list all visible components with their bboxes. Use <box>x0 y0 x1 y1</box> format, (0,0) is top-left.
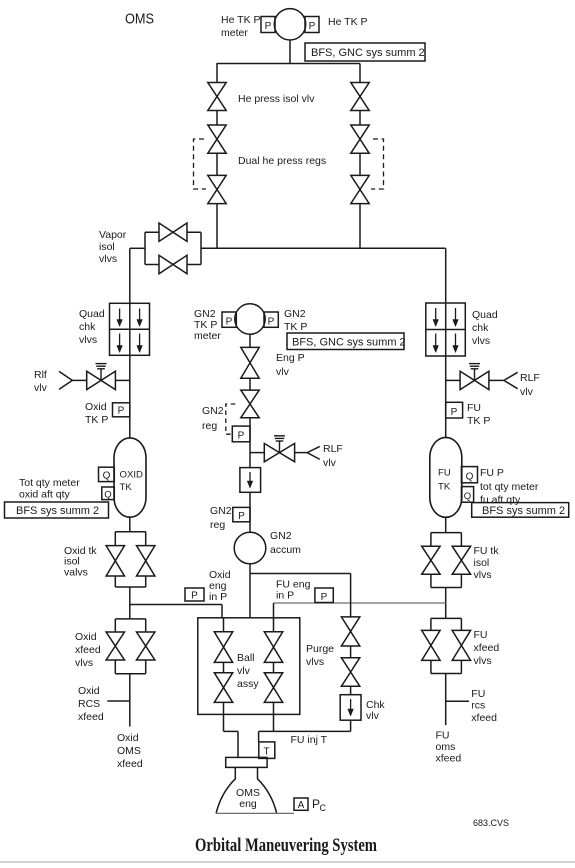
sensor box P fu eng in <box>315 588 333 603</box>
wire oxid oms xfeed line <box>129 674 131 727</box>
wire GN2 meter stem <box>249 334 251 347</box>
wire right rlf stub2 <box>489 379 504 381</box>
svg-text:chk: chk <box>472 322 489 334</box>
valve fu tk isol right <box>452 546 470 574</box>
check valve box GN2 <box>240 468 261 493</box>
valve fu tk isol left <box>422 546 440 574</box>
svg-text:xfeed: xfeed <box>78 711 104 723</box>
valve Rlf left bowtie <box>87 371 116 389</box>
vent symbol right rlf <box>469 363 480 365</box>
wire GN2 rlf stub <box>295 452 308 454</box>
valve dual He press reg left lower <box>208 175 226 203</box>
wire right He branch upper <box>359 64 361 83</box>
svg-text:vlvs: vlvs <box>474 655 492 667</box>
valve oxid tk isol right <box>137 546 155 576</box>
engine OMS eng bell outline <box>216 767 277 813</box>
svg-text:RLF: RLF <box>520 372 540 384</box>
svg-text:oxid aft qty: oxid aft qty <box>19 489 71 501</box>
wire fu isol right leg lower <box>460 574 462 587</box>
wire oxid xfeed right leg upper <box>145 619 147 632</box>
sensor box P right of He meter <box>305 17 319 33</box>
dashed bracket dual regs left <box>194 139 207 189</box>
wire ball left column seg3 <box>223 702 225 714</box>
valve assembly vapor isol vlvs loop <box>145 232 201 264</box>
svg-text:P: P <box>265 21 272 32</box>
wire fu rcs xfeed tick <box>446 700 469 702</box>
wire left main quad-to-tank <box>129 355 131 438</box>
svg-text:C: C <box>320 803 327 813</box>
valve Eng P vlv <box>241 347 259 378</box>
wire right branch seg1 <box>359 111 361 126</box>
arrow quad right bottom-right <box>455 334 457 347</box>
wire chk to fu inj <box>350 720 352 731</box>
tank OXID TK <box>114 438 146 517</box>
valve RLF right bowtie <box>460 371 489 389</box>
svg-text:Dual he press regs: Dual he press regs <box>238 155 326 167</box>
svg-text:TK P: TK P <box>85 414 108 426</box>
arrow quad left bottom-right <box>139 334 141 347</box>
valve He press isol vlv right <box>351 83 369 111</box>
svg-text:chk: chk <box>79 321 96 333</box>
svg-text:vlvs: vlvs <box>306 656 324 668</box>
svg-text:xfeed: xfeed <box>471 712 497 724</box>
svg-text:P: P <box>451 407 458 418</box>
wire purge seg1 <box>350 646 352 658</box>
svg-text:TK: TK <box>438 482 451 493</box>
svg-text:accum: accum <box>270 544 301 556</box>
wire fu feed below box v1 <box>273 714 275 731</box>
svg-text:vlv: vlv <box>276 366 290 378</box>
sensor box P GN2 reg lower <box>233 507 250 521</box>
wire fu isol top bar <box>431 532 462 534</box>
arrow quad right bottom-left <box>435 334 437 347</box>
wire fu xfeed right leg upper <box>460 618 462 630</box>
svg-text:GN2: GN2 <box>284 308 306 320</box>
arrow quad right top-right <box>455 308 457 320</box>
wire oxid isol right leg upper <box>145 532 147 546</box>
svg-text:Eng P: Eng P <box>276 352 305 364</box>
svg-text:oms: oms <box>436 741 456 753</box>
wire oxid xfeed left leg lower <box>114 660 116 674</box>
wire right branch seg2 <box>359 153 361 175</box>
svg-text:FU P: FU P <box>480 467 504 479</box>
svg-text:Oxid: Oxid <box>75 631 97 643</box>
junction GN2 rlf tee <box>250 452 264 454</box>
svg-text:He TK P: He TK P <box>328 16 368 28</box>
svg-text:xfeed: xfeed <box>436 753 462 765</box>
wire fu oms xfeed line <box>445 674 447 726</box>
svg-text:Quad: Quad <box>472 309 498 321</box>
svg-text:T: T <box>263 747 269 758</box>
wire fu feed drop to T box <box>258 731 260 742</box>
svg-text:Ball: Ball <box>237 652 255 664</box>
svg-text:assy: assy <box>237 678 259 690</box>
sensor box Q lower left tank <box>102 487 115 500</box>
wire fu isol left leg upper <box>430 533 432 547</box>
svg-text:Purge: Purge <box>306 643 334 655</box>
svg-text:reg: reg <box>202 420 217 432</box>
valve vapor isol bottom <box>159 255 187 273</box>
svg-text:in P: in P <box>276 590 294 602</box>
svg-text:P: P <box>309 21 316 32</box>
dashed bracket GN2 reg <box>226 404 236 434</box>
wire fu isol right leg upper <box>460 533 462 547</box>
wire left branch seg1 <box>216 111 218 126</box>
wire ball right column seg1 <box>273 618 275 632</box>
valve ball left upper <box>214 632 232 663</box>
wire fu isol bottom bar <box>431 587 462 589</box>
svg-text:xfeed: xfeed <box>474 642 500 654</box>
valve fu xfeed left <box>422 630 440 660</box>
engine OMS eng flange <box>226 757 267 767</box>
wire He meter stem <box>289 40 291 64</box>
valve oxid xfeed left <box>106 632 124 660</box>
svg-text:vlv: vlv <box>366 710 380 722</box>
wire left main drop from manifold <box>129 248 131 303</box>
sensor box P left of GN2 meter <box>222 312 236 327</box>
wire oxid isol left leg upper <box>114 532 116 546</box>
svg-text:xfeed: xfeed <box>117 758 143 770</box>
svg-text:BFS, GNC sys summ 2: BFS, GNC sys summ 2 <box>311 47 425 59</box>
wire oxid xfeed top bar <box>115 618 145 620</box>
svg-text:FU: FU <box>438 468 451 479</box>
svg-text:GN2: GN2 <box>210 505 232 517</box>
valve ball right upper <box>264 632 282 663</box>
svg-text:tot qty meter: tot qty meter <box>480 481 539 493</box>
wire oxid eng in line <box>130 604 222 606</box>
svg-text:BFS, GNC sys summ 2: BFS, GNC sys summ 2 <box>292 337 406 349</box>
svg-text:isol: isol <box>474 557 490 569</box>
svg-text:Q: Q <box>103 471 111 482</box>
tank FU TK <box>430 437 462 517</box>
wire GN2 seg3 <box>249 492 251 532</box>
wire purge drop <box>350 574 352 617</box>
relief wishbone right RLF <box>504 372 518 388</box>
svg-text:Oxid: Oxid <box>85 401 107 413</box>
svg-text:GN2: GN2 <box>202 405 224 417</box>
svg-text:Quad: Quad <box>79 308 105 320</box>
wire fu xfeed left leg upper <box>430 618 432 630</box>
dashed bracket dual regs right <box>371 139 384 189</box>
relief wishbone GN2 RLF <box>307 446 320 459</box>
svg-text:eng: eng <box>239 798 257 810</box>
svg-text:in P: in P <box>209 591 227 603</box>
svg-text:vlvs: vlvs <box>75 657 93 669</box>
wire oxid xfeed bottom bar <box>115 673 145 675</box>
callout box BFS sys summ 2 left <box>5 502 109 518</box>
wire oxid isol bottom bar <box>115 586 145 588</box>
svg-text:Q: Q <box>466 472 474 483</box>
arrow quad left top-right <box>139 309 141 321</box>
wire left He branch upper <box>216 64 218 83</box>
engine bell exit plane (grey) <box>216 812 294 814</box>
callout box BFS sys summ 2 right <box>472 503 569 518</box>
svg-text:vlvs: vlvs <box>79 334 97 346</box>
svg-text:xfeed: xfeed <box>75 644 101 656</box>
svg-text:RCS: RCS <box>78 698 100 710</box>
wire oxid xfeed left leg upper <box>114 619 116 632</box>
wire right main quad-to-tank <box>445 356 447 437</box>
valve dual He press reg left upper <box>208 125 226 153</box>
wire ball right column seg3 <box>273 702 275 714</box>
wire oxid eng drop to ball box <box>221 605 223 618</box>
svg-text:isol: isol <box>99 241 115 253</box>
svg-text:TK P: TK P <box>467 415 490 427</box>
wire fu eng drop to ball box <box>273 603 275 618</box>
svg-text:Q: Q <box>464 491 471 502</box>
wire oxid isol to junction <box>129 587 131 619</box>
sensor box A chamber pressure <box>294 798 308 810</box>
svg-text:vlv: vlv <box>237 665 251 677</box>
svg-text:683.CVS: 683.CVS <box>473 818 509 828</box>
wire left branch seg2 <box>216 153 218 175</box>
svg-text:RLF: RLF <box>323 443 343 455</box>
svg-text:OXID: OXID <box>120 470 144 481</box>
quad check valves right box <box>426 303 466 356</box>
wire oxid feed drop to engine <box>237 731 239 757</box>
wire left branch lower <box>216 204 218 249</box>
svg-text:GN2: GN2 <box>270 530 292 542</box>
wire fu xfeed right leg lower <box>460 660 462 673</box>
valve fu xfeed right <box>452 630 470 660</box>
valve He press isol vlv left <box>208 83 226 111</box>
svg-text:FU: FU <box>474 629 488 641</box>
svg-text:FU: FU <box>436 730 450 742</box>
check valve box purge <box>340 695 361 721</box>
wire ball left column seg2 <box>223 662 225 672</box>
arrow quad left bottom-left <box>119 334 121 347</box>
arrow in purge check valve <box>350 699 352 710</box>
wire GN2 seg1 <box>249 378 251 390</box>
sensor box P left of He meter <box>261 17 275 33</box>
wire vapor isol to right main <box>201 247 446 249</box>
svg-text:vlvs: vlvs <box>99 253 117 265</box>
svg-text:FU tk: FU tk <box>474 545 500 557</box>
svg-text:OMS: OMS <box>125 11 154 28</box>
wire fu isol to junction <box>445 588 447 619</box>
wire oxid isol right leg lower <box>145 576 147 587</box>
valve purge upper <box>341 617 359 646</box>
wire fu inj horizontal <box>259 730 351 732</box>
meter M1 He TK P (circle) <box>274 9 305 40</box>
wire fu xfeed left leg lower <box>430 660 432 673</box>
svg-text:P: P <box>191 591 198 602</box>
wire oxid rcs xfeed tick <box>107 700 130 702</box>
wire rlf to main left <box>115 379 129 381</box>
sensor box P GN2 reg upper <box>232 426 250 442</box>
vent symbol left rlf <box>96 363 107 365</box>
valve purge lower <box>341 658 359 687</box>
wire FU tank bottom stub <box>445 517 447 532</box>
wire fu xfeed bottom bar <box>431 673 462 675</box>
sensor box P FU TK P <box>446 402 463 418</box>
svg-text:vlv: vlv <box>323 457 337 469</box>
wire ball left column seg1 <box>223 618 225 632</box>
wire oxid isol left leg lower <box>114 576 116 587</box>
svg-text:meter: meter <box>221 27 248 39</box>
wire manifold to vapor isol (left stub) <box>130 247 145 249</box>
wire GN2 accum to ball box <box>249 564 251 618</box>
accumulator GN2 accum (circle) <box>234 532 266 564</box>
svg-text:vlv: vlv <box>520 386 534 398</box>
svg-text:Orbital Maneuvering System: Orbital Maneuvering System <box>195 835 377 856</box>
quad check valves left box <box>110 303 150 355</box>
sensor box P Oxid TK P <box>113 403 130 417</box>
arrow quad right top-left <box>435 308 437 320</box>
wire right branch lower <box>359 204 361 249</box>
wire fu isol left leg lower <box>430 574 432 587</box>
wire FU eng in line (grey) <box>274 602 446 604</box>
sensor box Q upper right tank <box>461 467 477 483</box>
svg-text:rcs: rcs <box>471 700 485 712</box>
ball valve assembly box <box>198 618 300 715</box>
wire tank bottom stub left <box>129 517 131 532</box>
svg-text:P: P <box>321 592 328 603</box>
wire ball right column seg2 <box>273 662 275 672</box>
wire He manifold top <box>217 63 361 65</box>
valve dual He press reg right upper <box>351 125 369 153</box>
svg-text:Oxid: Oxid <box>117 732 139 744</box>
wire oxid feed jog <box>224 730 239 732</box>
valve ball left lower <box>214 673 232 703</box>
callout box BFS, GNC sys summ 2 (top) <box>305 43 425 61</box>
svg-text:FU inj T: FU inj T <box>291 734 328 746</box>
svg-text:vlvs: vlvs <box>474 569 492 581</box>
svg-text:P: P <box>238 511 245 522</box>
svg-text:Oxid: Oxid <box>78 685 100 697</box>
sensor box T fu inj <box>259 742 275 759</box>
svg-text:BFS sys summ 2: BFS sys summ 2 <box>482 505 565 517</box>
vent symbol GN2 rlf <box>274 435 285 437</box>
sensor box P right of GN2 meter <box>264 312 278 327</box>
wire oxid xfeed right leg lower <box>145 660 147 674</box>
svg-text:P: P <box>226 317 233 328</box>
svg-text:TK P: TK P <box>284 321 307 333</box>
relief valve Rlf vlv left wishbone <box>59 371 72 389</box>
callout box BFS, GNC sys summ 2 (GN2) <box>287 333 404 350</box>
svg-text:FU: FU <box>467 402 481 414</box>
svg-text:P: P <box>238 431 245 442</box>
valve GN2 reg upper <box>241 390 259 418</box>
wire rlf left stub <box>72 379 86 381</box>
valve ball right lower <box>264 673 282 703</box>
svg-text:TK: TK <box>120 482 133 493</box>
svg-text:meter: meter <box>194 330 221 342</box>
svg-text:Tot qty meter: Tot qty meter <box>19 477 80 489</box>
wire GN2 seg2 <box>249 418 251 468</box>
svg-text:valvs: valvs <box>64 566 88 578</box>
valve RLF GN2 bowtie <box>264 443 294 461</box>
sensor box Q lower right tank <box>461 487 473 503</box>
valve oxid xfeed right <box>137 632 155 660</box>
svg-text:vlv: vlv <box>34 382 48 394</box>
wire right rlf stub from main <box>446 379 460 381</box>
sensor box Q upper left tank <box>99 467 115 481</box>
valve dual He press reg right lower <box>351 175 369 203</box>
page edge artifact line (grey) <box>0 861 575 863</box>
svg-text:FU: FU <box>471 688 485 700</box>
wire fu xfeed top bar <box>431 617 462 619</box>
svg-text:BFS sys summ 2: BFS sys summ 2 <box>16 505 99 517</box>
sensor box P oxid eng in <box>185 588 204 601</box>
svg-text:vlvs: vlvs <box>472 335 490 347</box>
wire GN2 to purge branch <box>250 573 351 575</box>
svg-text:Rlf: Rlf <box>34 369 47 381</box>
svg-text:OMS: OMS <box>117 745 141 757</box>
svg-text:He press isol vlv: He press isol vlv <box>238 93 315 105</box>
svg-text:A: A <box>298 800 305 811</box>
wire oxid feed below box v1 <box>223 714 225 731</box>
svg-text:P: P <box>118 406 125 417</box>
svg-text:Q: Q <box>104 490 111 501</box>
valve vapor isol top <box>159 223 187 241</box>
wire right main drop from manifold <box>445 248 447 303</box>
arrow quad left top-left <box>119 309 121 321</box>
arrow in GN2 check valve <box>249 472 251 482</box>
valve oxid tk isol left <box>106 546 124 576</box>
svg-text:Vapor: Vapor <box>99 229 127 241</box>
svg-text:reg: reg <box>210 519 225 531</box>
wire oxid isol top bar <box>115 531 145 533</box>
wire purge seg2 <box>350 686 352 694</box>
meter M2 GN2 TK P (circle) <box>235 304 265 334</box>
svg-text:P: P <box>268 317 275 328</box>
svg-text:He TK P: He TK P <box>221 14 261 26</box>
